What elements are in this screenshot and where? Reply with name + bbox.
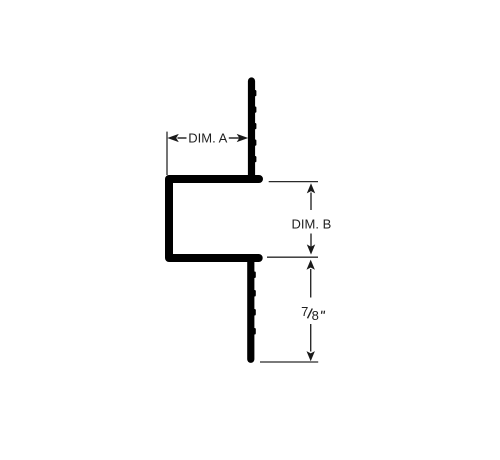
svg-text:8: 8: [312, 308, 319, 323]
DIM. B top extension line: [269, 181, 318, 183]
7/8 upper shaft: [310, 269, 312, 298]
7/8 bottom extension line: [260, 361, 318, 363]
DIM. A dimension line right segment: [229, 137, 240, 139]
svg-text:DIM. A: DIM. A: [188, 131, 227, 146]
svg-text:DIM. B: DIM. B: [292, 216, 332, 231]
DIM. B bottom extension line: [267, 256, 318, 258]
DIM. B lower shaft: [310, 234, 312, 253]
bottom fin vertical bar: [247, 258, 254, 359]
DIM. B upper shaft: [310, 193, 312, 211]
svg-text:7: 7: [301, 304, 308, 319]
bottom fin serrations: [253, 272, 255, 335]
DIM. B down arrowhead: [307, 244, 315, 254]
7/8 up arrowhead: [307, 260, 315, 270]
top fin serrations: [254, 90, 256, 162]
top fin vertical bar: [248, 81, 255, 179]
channel C-shape: [169, 179, 259, 258]
7/8 label slash: [308, 309, 313, 319]
DIM. A extension line: [166, 132, 168, 175]
DIM. B up arrowhead: [307, 183, 315, 193]
7/8 lower shaft: [310, 324, 312, 352]
7/8 down arrowhead: [307, 351, 315, 361]
DIM. A dimension line left segment: [178, 137, 187, 139]
DIM. A left arrowhead: [167, 134, 179, 142]
inch mark: [322, 311, 325, 314]
DIM. A right arrowhead: [237, 134, 249, 142]
